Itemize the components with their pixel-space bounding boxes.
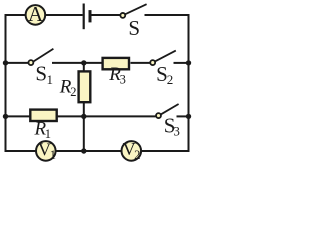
node: row2 / R2 top junction: [81, 60, 86, 65]
svg-text:S: S: [128, 16, 140, 40]
node: left wire / row2 junction: [3, 60, 8, 65]
wire: S3 fixed side to right wire: [177, 115, 189, 117]
node: right wire / row3 junction: [186, 114, 191, 119]
wire: ammeter to battery: [46, 14, 83, 16]
wire: R3 to S2 pivot: [131, 62, 151, 64]
resistor R2: [59, 71, 90, 102]
svg-text:A: A: [28, 2, 44, 26]
node: bottom wire junction: [81, 148, 86, 153]
node: row3 / R2 bottom junction: [81, 114, 86, 119]
wire: S1 fixed side to R3: [52, 62, 102, 64]
wire: left vertical: [5, 14, 7, 152]
resistor R3: [103, 58, 129, 87]
ammeter A: [26, 2, 46, 26]
wire: R2 bottom stub through row3 to bottom wire: [83, 103, 85, 151]
battery B short plate: [89, 10, 92, 22]
wire: right vertical: [188, 14, 190, 152]
wire: S2 fixed side to right wire: [174, 62, 189, 64]
wire: battery to switch S pivot: [92, 14, 121, 16]
voltmeter V1: [36, 140, 56, 163]
wire: R1 to S3 pivot: [57, 115, 155, 117]
node: left wire / row3 junction: [3, 114, 8, 119]
wire: top left to ammeter: [5, 14, 26, 16]
wire: row3 left wire to R1: [6, 115, 30, 117]
wire: bottom horizontal: [5, 150, 190, 152]
wire: row2 left wire to S1 pivot: [6, 62, 29, 64]
switch S2: [150, 51, 176, 88]
battery B long plate: [83, 4, 85, 30]
wire: switch S fixed side to top-right corner: [145, 14, 190, 16]
voltmeter V2: [122, 139, 142, 162]
resistor R1: [30, 110, 56, 141]
switch S3: [156, 104, 180, 138]
switch S: [120, 4, 146, 40]
switch S1: [28, 49, 53, 87]
wire: R2 top stub from row2: [83, 63, 85, 71]
node: right wire / row2 junction: [186, 60, 191, 65]
